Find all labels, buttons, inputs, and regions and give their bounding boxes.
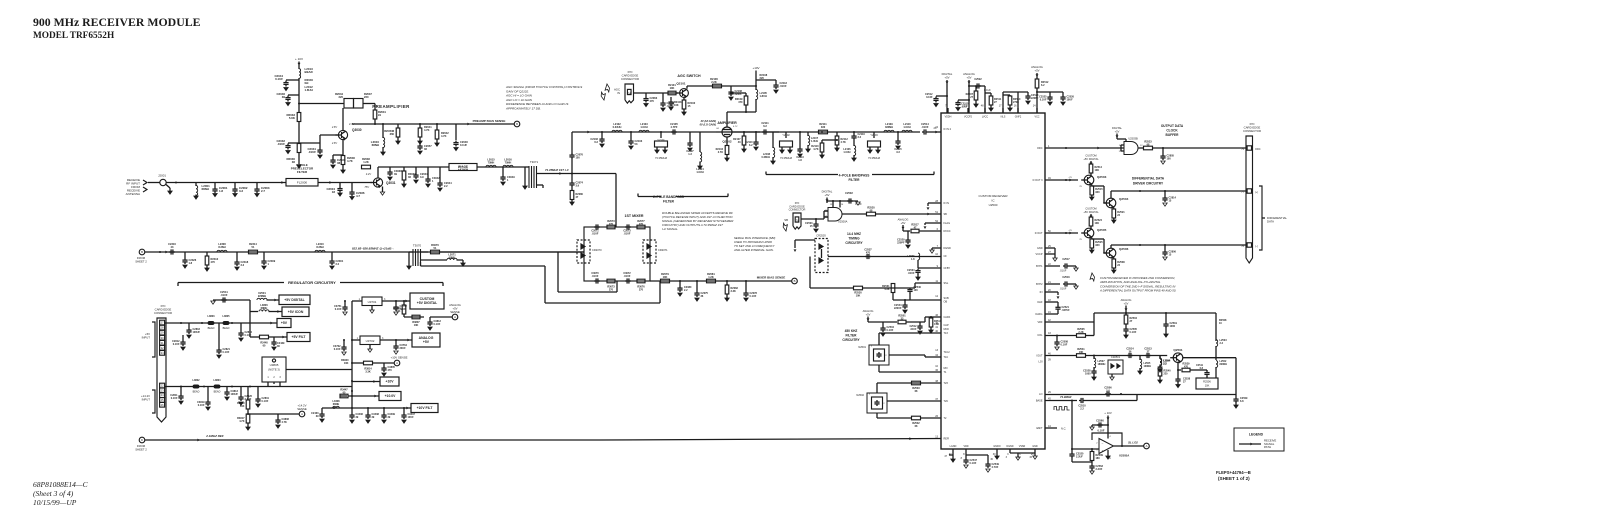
resistor R2525	[1091, 238, 1093, 240]
svg-text:10K: 10K	[414, 324, 419, 327]
svg-text:220MH: 220MH	[258, 294, 266, 298]
resistor R2111 series	[819, 130, 828, 134]
svg-text:U3805: U3805	[270, 363, 279, 367]
power box +5V DIGITAL	[279, 295, 310, 305]
capacitor C2316 series	[169, 251, 171, 253]
svg-text:1.8: 1.8	[219, 189, 223, 193]
svg-text:+10V: +10V	[385, 380, 394, 384]
svg-text:FILTER: FILTER	[297, 170, 308, 174]
power box CUSTOM +5V DIGITAL	[405, 300, 408, 303]
resistor R2081 series	[707, 279, 716, 283]
wire regulator rail to right bus	[286, 369, 352, 371]
svg-text:+5V ICON: +5V ICON	[288, 310, 304, 314]
svg-text:2.2: 2.2	[684, 289, 688, 292]
svg-text:T1C: T1C	[944, 356, 949, 359]
svg-text:10K: 10K	[1095, 222, 1100, 225]
capacitor C2074	[571, 174, 573, 182]
capacitor C2514 series	[922, 131, 924, 133]
svg-text:220: 220	[1164, 373, 1169, 376]
svg-text:+5V: +5V	[944, 76, 949, 80]
svg-text:CR2501: CR2501	[1111, 356, 1121, 359]
svg-text:J2001: J2001	[158, 174, 166, 178]
svg-text:VSSR: VSSR	[1019, 445, 1026, 448]
svg-text:LGND: LGND	[950, 445, 957, 448]
capacitor C2524	[1027, 92, 1029, 94]
resistor R2501 series	[898, 320, 906, 324]
transistor Q2505	[1084, 228, 1094, 238]
svg-text:2.2UF: 2.2UF	[1076, 456, 1083, 459]
svg-text:SHEET 2: SHEET 2	[135, 448, 147, 452]
resistor R2107	[743, 132, 745, 136]
svg-text:+5V: +5V	[1115, 129, 1120, 133]
svg-text:D OUT 3: D OUT 3	[1033, 179, 1043, 182]
resistor R2314 series	[249, 250, 258, 254]
wires N2502 to IC	[876, 383, 878, 393]
wire +14.2V bus	[165, 386, 300, 388]
resistor R2035M	[397, 124, 399, 128]
capacitor C2326	[184, 252, 186, 258]
ground opamp power pin	[1107, 450, 1109, 456]
svg-text:2–POLE BANDPASS: 2–POLE BANDPASS	[653, 195, 684, 199]
svg-text:CIRCUITRY: CIRCUITRY	[842, 338, 860, 342]
resistor R2312	[206, 252, 208, 256]
svg-text:470: 470	[866, 252, 871, 255]
wire into IC pin 24	[928, 131, 941, 133]
svg-text:1.8UH: 1.8UH	[305, 88, 313, 92]
svg-text:ODC: ODC	[1037, 147, 1043, 150]
svg-text:73.35MHZ: 73.35MHZ	[780, 156, 793, 160]
svg-text:+: +	[1102, 449, 1104, 453]
ground GNDO	[996, 449, 998, 456]
inductor L2015	[477, 166, 525, 168]
resistor R2512	[1036, 78, 1038, 79]
svg-text:1.0UH: 1.0UH	[640, 125, 647, 129]
inductor L2013 BEAD	[298, 66, 300, 69]
wire EMIT NC	[1045, 427, 1057, 429]
power box +5V	[250, 322, 277, 324]
capacitor C2540	[909, 293, 911, 300]
svg-text:73.35MHZ: 73.35MHZ	[868, 156, 881, 160]
svg-text:4.3K: 4.3K	[884, 288, 889, 291]
capacitor C2506 series LO	[1105, 393, 1107, 395]
svg-text:CONNECTOR: CONNECTOR	[621, 77, 639, 81]
capacitor C2522 series	[969, 85, 985, 87]
svg-text:Q2504: Q2504	[1119, 197, 1129, 201]
resistor R2103	[670, 97, 672, 100]
svg-text:73.35MHZ 1ST I–F: 73.35MHZ 1ST I–F	[545, 168, 569, 172]
capacitor C2812	[182, 335, 184, 340]
capacitor C2107	[689, 132, 691, 141]
svg-text:1.0UH: 1.0UH	[843, 151, 850, 154]
svg-text:(+): (+)	[1255, 192, 1258, 194]
wire Q3031 collector	[377, 167, 379, 178]
svg-text:4.7K: 4.7K	[441, 134, 447, 138]
capacitor C2116	[853, 132, 855, 134]
svg-text:MIXER BIAS SENSE: MIXER BIAS SENSE	[757, 276, 786, 280]
svg-text:BASE: BASE	[1036, 400, 1043, 403]
svg-text:10/15/99—UP: 10/15/99—UP	[33, 498, 77, 507]
svg-text:SB: SB	[944, 213, 948, 216]
svg-text:BYP2: BYP2	[1036, 283, 1043, 286]
ground at J2001	[166, 185, 170, 189]
resistor R2038	[362, 165, 371, 169]
svg-text:2.2: 2.2	[1080, 408, 1084, 411]
svg-text:10K: 10K	[344, 362, 349, 365]
capacitor C2521 DAF-DAFG	[1045, 301, 1058, 303]
terminal preamp bias sense	[514, 121, 520, 127]
svg-text:.01UF: .01UF	[308, 150, 316, 154]
svg-text:820NH: 820NH	[1220, 363, 1228, 366]
inductor L2310	[315, 250, 325, 252]
power box ANALOG +5V	[407, 339, 410, 342]
resistor R3447 series	[340, 395, 347, 397]
svg-text:1.2K: 1.2K	[363, 160, 369, 164]
wire D OUT	[1045, 232, 1078, 234]
svg-text:180NH: 180NH	[1098, 363, 1106, 366]
svg-text:SL LO2: SL LO2	[1128, 441, 1138, 445]
wire BASE line	[1045, 400, 1077, 402]
svg-text:+10V: +10V	[752, 66, 759, 70]
bracket differential data	[1259, 186, 1262, 250]
capacitor C2033	[332, 155, 334, 158]
svg-text:6.2: 6.2	[749, 144, 753, 147]
resistor R2521	[1113, 208, 1115, 210]
wire ODC	[1045, 147, 1124, 149]
svg-text:2V (HI GAIN): 2V (HI GAIN)	[700, 119, 717, 123]
wire COL to rail	[1045, 335, 1076, 337]
svg-text:Q2505: Q2505	[1097, 228, 1107, 232]
resistor R2506 box	[1196, 378, 1218, 389]
svg-text:(SHEET 1 of 2): (SHEET 1 of 2)	[1218, 476, 1250, 481]
svg-text:330: 330	[821, 125, 826, 129]
svg-text:1000: 1000	[1085, 373, 1091, 376]
svg-text:CR2070: CR2070	[592, 248, 602, 252]
transistor Q2102 dual-gate	[722, 127, 732, 137]
svg-text:73.35MHZ: 73.35MHZ	[655, 156, 668, 160]
svg-text:OB: OB	[944, 301, 948, 304]
svg-text:6.2: 6.2	[1041, 84, 1045, 87]
capacitor C2505	[1125, 327, 1127, 329]
svg-text:Q2501: Q2501	[1173, 348, 1183, 352]
svg-text:4.7PF: 4.7PF	[671, 125, 678, 129]
inductor L2106	[853, 143, 855, 146]
svg-text:DAFG: DAFG	[1036, 313, 1043, 316]
capacitor C2075	[696, 281, 698, 291]
svg-text:4.7V: 4.7V	[733, 126, 738, 128]
capacitor C2002	[234, 183, 236, 188]
capacitor C2513 series	[1145, 355, 1147, 357]
svg-text:AND ALTER INTERNAL GAIN.: AND ALTER INTERNAL GAIN.	[733, 248, 774, 252]
svg-text:FLAG: FLAG	[944, 222, 951, 225]
svg-text:L3802: L3802	[192, 379, 200, 382]
resistor R2106	[713, 84, 722, 88]
svg-text:10K: 10K	[1079, 351, 1084, 354]
capacitor C2520	[1071, 452, 1073, 454]
capacitor C2504 450k	[882, 322, 884, 326]
svg-text:VRF: VRF	[1038, 321, 1043, 324]
svg-text:FILTER: FILTER	[663, 200, 675, 204]
svg-text:0V (LO GAIN): 0V (LO GAIN)	[700, 123, 717, 127]
resistor R2033	[297, 113, 301, 122]
svg-text:68NH: 68NH	[333, 403, 340, 406]
resistor R2531	[893, 299, 941, 301]
arrow SBI down	[794, 240, 796, 248]
svg-text:CUSTOM RECEIVER: CUSTOM RECEIVER	[978, 194, 1008, 198]
svg-text:L3804: L3804	[213, 379, 221, 382]
svg-text:.01UF: .01UF	[220, 293, 227, 297]
resistor R2539 horizontal	[1178, 369, 1181, 371]
power box +5V FILT	[287, 333, 310, 342]
svg-text:+ 10V: + 10V	[1104, 411, 1112, 415]
svg-text:1.3: 1.3	[688, 153, 692, 156]
capacitor C2537 series	[865, 256, 867, 258]
svg-text:0.1UF: 0.1UF	[460, 143, 467, 147]
capacitor C2502 series	[826, 201, 828, 202]
svg-text:Q2506: Q2506	[1119, 247, 1129, 251]
svg-text:2.7K: 2.7K	[718, 151, 723, 154]
svg-text:VDDH: VDDH	[945, 116, 952, 119]
inductor L3803 BEAD	[208, 321, 214, 324]
svg-text:TIMING: TIMING	[848, 237, 860, 241]
svg-text:D OUT: D OUT	[1035, 232, 1043, 235]
inductor L2108	[772, 132, 774, 148]
svg-text:N2502: N2502	[856, 393, 864, 397]
annotation arrow doodle 1	[603, 84, 612, 93]
transistor Q2101	[680, 89, 689, 98]
svg-text:+5V DIGITAL: +5V DIGITAL	[1083, 210, 1099, 214]
capacitor C2309	[263, 252, 265, 259]
capacitor C2113	[799, 132, 801, 147]
svg-text:470: 470	[211, 260, 216, 264]
resistor R2080	[571, 187, 573, 191]
emitter chain Q2501 C2538	[1177, 363, 1179, 378]
svg-text:+5V: +5V	[824, 193, 829, 197]
svg-text:+10V SENSE: +10V SENSE	[391, 356, 408, 360]
inductor L2308	[217, 250, 227, 252]
capacitor C3812	[429, 317, 431, 320]
svg-text:+ 10V: + 10V	[295, 57, 303, 61]
inductor L2104	[699, 132, 701, 152]
svg-text:FLEPS+44794—B: FLEPS+44794—B	[1216, 470, 1251, 475]
capacitor C2036	[351, 183, 353, 191]
capacitor C2563	[1091, 462, 1093, 464]
capacitor C2105 series	[671, 131, 673, 133]
capacitor C3439	[383, 408, 385, 413]
annotation doodle custom receiver	[1088, 273, 1097, 282]
capacitor C2318	[236, 252, 238, 260]
transistor Q2504	[1106, 198, 1116, 208]
svg-text:AGC SWITCH: AGC SWITCH	[677, 74, 701, 78]
svg-text:220: 220	[364, 95, 369, 99]
svg-text:Y2101: Y2101	[657, 138, 665, 142]
svg-text:220: 220	[339, 95, 344, 99]
svg-text:1.8: 1.8	[798, 159, 802, 162]
svg-text:75NH: 75NH	[505, 161, 512, 165]
resistor R2510	[1003, 94, 1010, 96]
svg-text:10UF: 10UF	[408, 416, 415, 419]
svg-text:LO: LO	[1039, 393, 1042, 396]
svg-text:DGND: DGND	[1006, 445, 1013, 448]
svg-text:450 KHZ: 450 KHZ	[845, 329, 858, 333]
resistor R2031	[373, 110, 377, 119]
ceramic filter N2501	[869, 345, 889, 365]
svg-text:.01UF: .01UF	[277, 142, 285, 146]
svg-text:4.7UF: 4.7UF	[992, 466, 999, 469]
capacitor C2041	[415, 167, 417, 173]
wire 1st IF line	[572, 131, 716, 133]
svg-text:.01UF: .01UF	[908, 272, 915, 275]
svg-text:DVCC: DVCC	[944, 230, 951, 233]
svg-text:IF IN 2: IF IN 2	[944, 128, 952, 131]
wire DGND pin stub	[932, 247, 941, 249]
svg-text:0.10F: 0.10F	[926, 96, 933, 99]
wire doubles	[601, 131, 603, 133]
resistor R2509	[1091, 449, 1093, 452]
svg-text:FL2000: FL2000	[297, 181, 308, 185]
svg-text:VCCP2: VCCP2	[964, 116, 973, 119]
svg-text:4.7K: 4.7K	[239, 420, 244, 423]
capacitor C2509	[1235, 395, 1237, 398]
svg-text:1.8UH: 1.8UH	[760, 94, 767, 98]
regulator U3805	[262, 357, 286, 382]
svg-text:OUTPUT DATA: OUTPUT DATA	[1161, 124, 1184, 128]
svg-text:100: 100	[1167, 158, 1172, 161]
wire LVCC vertical	[984, 86, 986, 113]
svg-text:1000: 1000	[1170, 325, 1176, 328]
svg-text:1.0UH: 1.0UH	[696, 170, 703, 174]
svg-text:INPUT: INPUT	[142, 398, 151, 402]
capacitor C2510 series	[1079, 400, 1081, 402]
svg-text:CR2503: CR2503	[816, 234, 826, 238]
capacitor C2115	[897, 132, 899, 139]
capacitor C2525	[1037, 91, 1063, 93]
svg-text:4.7K: 4.7K	[282, 421, 287, 424]
wire LO loop lower	[420, 262, 422, 266]
capacitor C2104	[662, 93, 664, 101]
svg-text:(NOTE 3): (NOTE 3)	[268, 368, 280, 372]
svg-text:3.3: 3.3	[896, 151, 900, 154]
svg-text:PREAMP BIAS SENSE: PREAMP BIAS SENSE	[473, 119, 506, 123]
svg-text:74: 74	[628, 92, 632, 96]
svg-text:2.2: 2.2	[336, 262, 340, 266]
capacitor C2301	[331, 252, 333, 259]
capacitor C2526	[1062, 92, 1064, 95]
capacitor C2003	[256, 183, 258, 188]
svg-text:1ST MIXER: 1ST MIXER	[625, 214, 644, 218]
label 2-pole bandpass filter	[638, 196, 661, 198]
svg-text:0.1UF: 0.1UF	[335, 308, 342, 311]
power box +10.0V	[374, 395, 377, 398]
svg-text:3.9: 3.9	[576, 185, 580, 188]
svg-text:0.1UF: 0.1UF	[198, 404, 205, 407]
capacitor C2508	[1056, 336, 1058, 341]
svg-text:5.6K: 5.6K	[289, 116, 296, 120]
svg-text:.01UF: .01UF	[921, 125, 928, 129]
svg-text:(–): (–)	[1255, 246, 1258, 248]
resistor R2515	[1091, 185, 1093, 187]
terminal from sheet 2 D	[139, 437, 145, 443]
resistor R3814 and +10V sense	[352, 362, 363, 364]
resistor R2523 series	[1139, 147, 1144, 149]
ground LGND	[952, 449, 954, 455]
svg-text:1.2K: 1.2K	[708, 275, 714, 279]
svg-text:T3070: T3070	[413, 244, 422, 248]
svg-text:23UF: 23UF	[400, 347, 407, 350]
svg-text:+5V FILT: +5V FILT	[292, 335, 307, 339]
svg-text:U2505A: U2505A	[1119, 454, 1129, 458]
svg-text:330NH: 330NH	[885, 125, 893, 129]
svg-text:180: 180	[1096, 457, 1101, 460]
capacitor C3813	[226, 387, 228, 391]
filter FL2000	[286, 179, 318, 187]
wire T2C	[887, 400, 941, 402]
svg-text:Y2103: Y2103	[870, 133, 878, 137]
svg-text:GNDO: GNDO	[993, 445, 1000, 448]
svg-text:10K: 10K	[670, 86, 675, 90]
capacitor C2001	[214, 183, 216, 188]
wire Q3030 base	[320, 134, 339, 136]
svg-text:.01UF: .01UF	[910, 328, 917, 331]
emitter network Q3030	[342, 140, 344, 155]
svg-text:900 MHz RECEIVER MODULE: 900 MHz RECEIVER MODULE	[33, 15, 201, 29]
transistor Q2501	[1173, 353, 1183, 363]
svg-text:4.7K: 4.7K	[841, 141, 846, 144]
loop to SSL via R2530	[809, 257, 811, 289]
inductor L2103	[639, 130, 649, 132]
capacitor C2547 VDD	[965, 449, 967, 455]
svg-text:220PF: 220PF	[1031, 97, 1039, 100]
svg-text:VDD: VDD	[963, 445, 968, 448]
resistor R2517	[911, 229, 919, 233]
resistor R2503 series	[912, 381, 921, 385]
svg-text:270: 270	[609, 223, 614, 226]
svg-text:6.2: 6.2	[594, 140, 598, 144]
svg-text:+5V: +5V	[901, 221, 906, 225]
resistor R2511	[990, 93, 992, 96]
svg-text:3.3: 3.3	[239, 189, 243, 193]
capacitor C2110	[755, 132, 757, 140]
svg-text:U2500: U2500	[989, 203, 998, 207]
ground DGND2	[1009, 449, 1011, 453]
resistor R2514	[1089, 164, 1093, 173]
svg-text:4.7K: 4.7K	[347, 159, 353, 163]
ground GND pin 25	[1045, 247, 1055, 249]
svg-text:51K: 51K	[240, 405, 245, 408]
svg-text:CAPA: CAPA	[944, 316, 951, 319]
svg-text:68NH: 68NH	[202, 187, 209, 191]
resistor R2538	[1113, 258, 1115, 260]
terminal from sheet 2 B	[139, 249, 145, 255]
resistor R2042	[436, 124, 438, 130]
svg-text:130NH: 130NH	[1144, 365, 1152, 368]
svg-text:0.1UF: 0.1UF	[171, 397, 178, 400]
wire VCCP	[1045, 253, 1055, 255]
terminal SL LO2	[1144, 443, 1150, 449]
label 4-pole bandpass filter	[766, 174, 838, 176]
svg-text:T2C: T2C	[944, 400, 949, 403]
svg-text:68NH: 68NH	[449, 256, 456, 260]
svg-text:220PF: 220PF	[897, 242, 905, 245]
svg-text:+5V DIGITAL: +5V DIGITAL	[284, 298, 304, 302]
diode pack CR2503	[815, 239, 828, 273]
svg-text:Q3030: Q3030	[352, 128, 362, 132]
svg-text:4.7K: 4.7K	[813, 148, 818, 151]
svg-text:A: A	[396, 361, 398, 365]
inductor L2503 vertical	[1216, 340, 1218, 347]
svg-text:.01UF: .01UF	[592, 275, 599, 278]
svg-text:2.7: 2.7	[261, 189, 265, 193]
wire T2 via R2502	[876, 413, 878, 418]
